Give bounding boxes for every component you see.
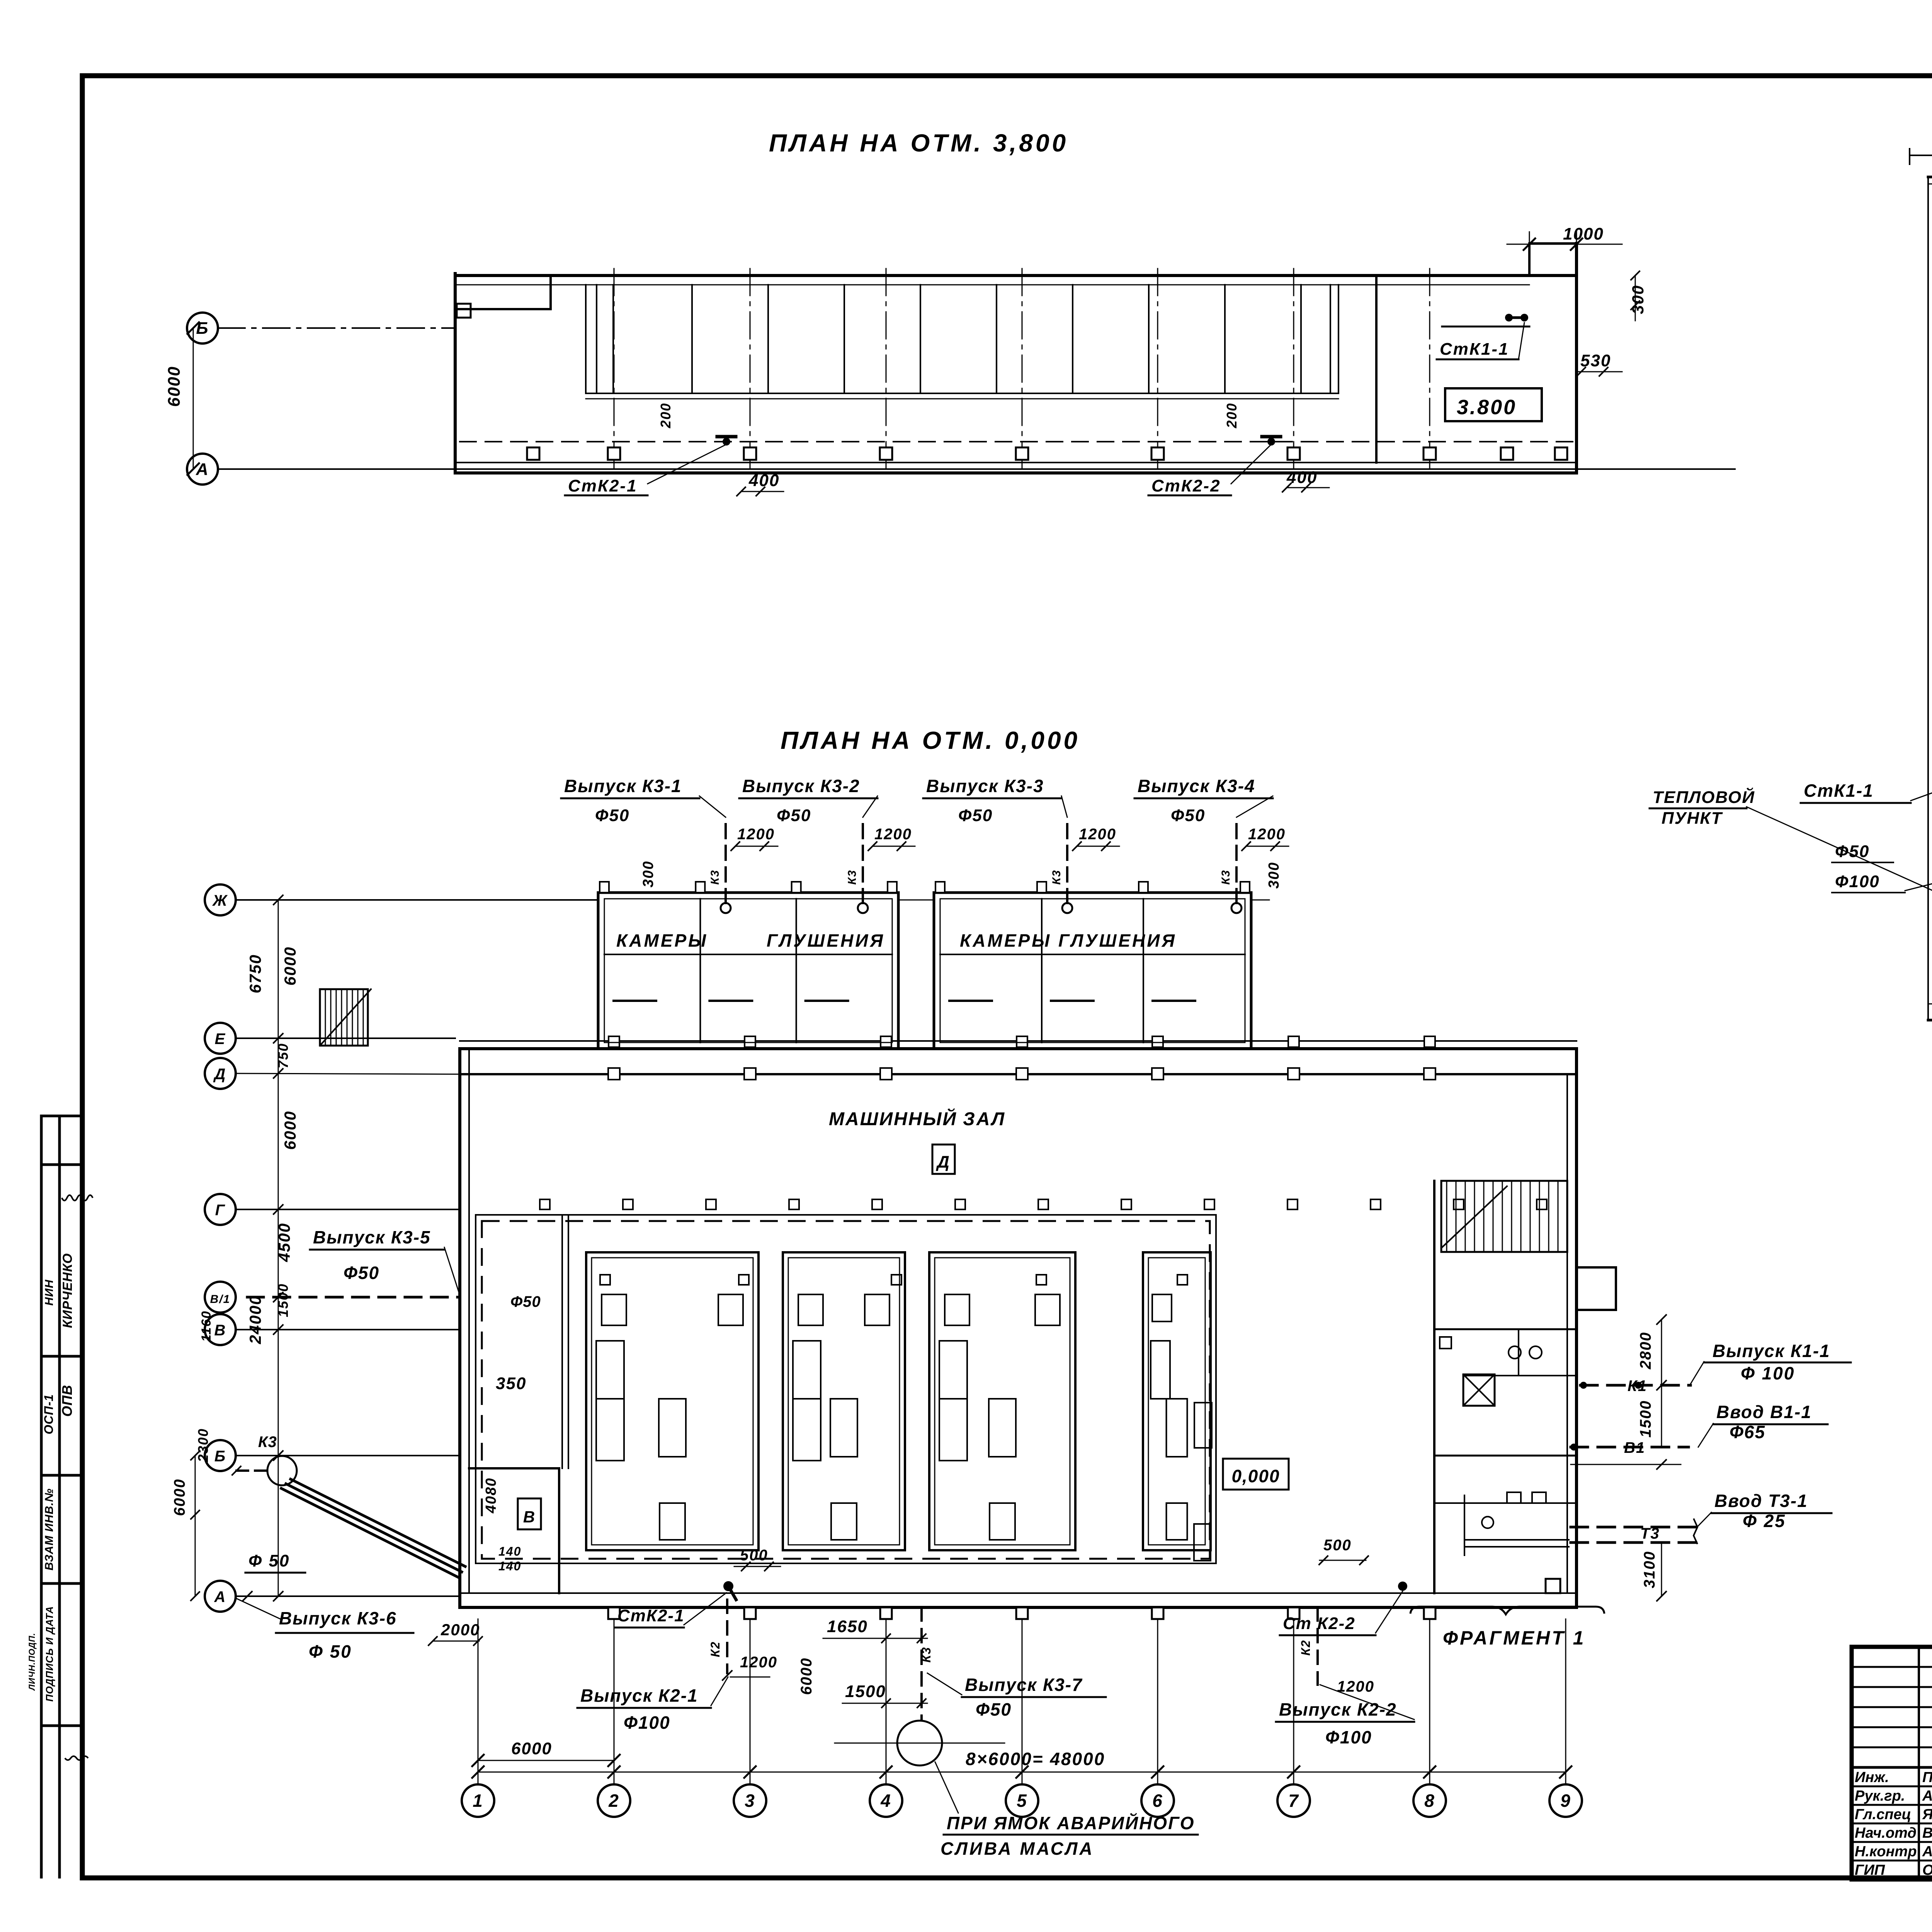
svg-text:6000: 6000 <box>165 366 184 407</box>
svg-text:К3: К3 <box>919 1646 933 1662</box>
svg-text:24000: 24000 <box>246 1295 264 1345</box>
svg-text:300: 300 <box>640 861 656 887</box>
svg-text:Ввод В1-1: Ввод В1-1 <box>1716 1402 1812 1422</box>
svg-text:ЛИЧН.ПОДП.: ЛИЧН.ПОДП. <box>27 1633 37 1691</box>
svg-text:ОСП-1: ОСП-1 <box>42 1394 56 1434</box>
svg-text:ОПВ: ОПВ <box>59 1385 75 1417</box>
svg-text:В: В <box>214 1322 226 1339</box>
svg-text:К3: К3 <box>709 869 721 884</box>
svg-text:Е: Е <box>215 1031 226 1048</box>
svg-text:АЛЕКСАНДРОВ: АЛЕКСАНДРОВ <box>1922 1844 1932 1860</box>
svg-text:Ф50: Ф50 <box>976 1699 1012 1719</box>
svg-text:К2: К2 <box>708 1641 722 1657</box>
svg-text:ГИП: ГИП <box>1855 1862 1885 1878</box>
svg-text:КИРЧЕНКО: КИРЧЕНКО <box>60 1253 75 1328</box>
svg-text:2300: 2300 <box>195 1428 211 1463</box>
svg-text:Ф 50: Ф 50 <box>248 1551 290 1570</box>
svg-text:СтК1-1: СтК1-1 <box>1440 340 1509 359</box>
svg-text:300: 300 <box>1629 285 1647 314</box>
svg-text:ФРАГМЕНТ 1: ФРАГМЕНТ 1 <box>1443 1627 1585 1649</box>
svg-text:Г: Г <box>215 1202 226 1219</box>
svg-text:Ф50: Ф50 <box>777 806 811 825</box>
svg-text:1200: 1200 <box>1248 826 1286 843</box>
svg-text:Ф50: Ф50 <box>344 1263 379 1283</box>
svg-text:200: 200 <box>658 403 673 429</box>
svg-text:Б: Б <box>214 1448 226 1465</box>
svg-text:Д: Д <box>935 1153 950 1172</box>
svg-text:1500: 1500 <box>1637 1400 1654 1438</box>
svg-text:К3: К3 <box>1050 869 1063 884</box>
svg-text:2: 2 <box>608 1791 619 1811</box>
svg-text:СтК1-1: СтК1-1 <box>1804 781 1874 801</box>
svg-text:КАМЕРЫ: КАМЕРЫ <box>616 930 708 951</box>
svg-text:В: В <box>523 1508 536 1526</box>
svg-text:350: 350 <box>496 1374 526 1393</box>
svg-text:ПЛАН НА ОТМ. 3,800: ПЛАН НА ОТМ. 3,800 <box>769 129 1068 157</box>
svg-text:Ф65: Ф65 <box>1730 1422 1765 1442</box>
svg-text:6: 6 <box>1152 1791 1163 1811</box>
svg-text:ОСТАШЕВСКИЙ: ОСТАШЕВСКИЙ <box>1922 1861 1932 1878</box>
svg-text:Выпуск К3-1: Выпуск К3-1 <box>564 776 682 796</box>
svg-text:СтК2-1: СтК2-1 <box>617 1606 685 1625</box>
svg-text:2000: 2000 <box>440 1621 480 1639</box>
svg-text:1000: 1000 <box>1563 224 1604 243</box>
svg-text:1200: 1200 <box>874 826 912 843</box>
svg-text:2800: 2800 <box>1637 1332 1654 1370</box>
svg-text:Ввод Т3-1: Ввод Т3-1 <box>1714 1491 1808 1511</box>
svg-text:750: 750 <box>275 1043 291 1068</box>
svg-text:4080: 4080 <box>483 1478 499 1514</box>
svg-text:К3: К3 <box>1219 869 1232 884</box>
svg-text:300: 300 <box>1266 862 1282 888</box>
svg-text:Ф50: Ф50 <box>1835 842 1869 861</box>
svg-text:Нач.отд: Нач.отд <box>1855 1825 1917 1841</box>
svg-text:АНИКИН: АНИКИН <box>1922 1788 1932 1804</box>
svg-text:К3: К3 <box>846 869 859 884</box>
svg-text:К3: К3 <box>258 1434 277 1451</box>
svg-text:ГЛУШЕНИЯ: ГЛУШЕНИЯ <box>767 930 885 951</box>
svg-text:Ф 25: Ф 25 <box>1743 1511 1786 1531</box>
svg-text:МАШИННЫЙ: МАШИННЫЙ <box>829 1108 957 1129</box>
svg-text:9: 9 <box>1560 1791 1571 1811</box>
svg-text:1500: 1500 <box>845 1682 886 1701</box>
svg-text:6000: 6000 <box>171 1479 188 1516</box>
svg-text:4500: 4500 <box>275 1223 293 1262</box>
svg-text:400: 400 <box>1286 468 1317 487</box>
svg-text:Выпуск К3-4: Выпуск К3-4 <box>1138 776 1255 796</box>
svg-text:Ф100: Ф100 <box>624 1713 670 1733</box>
svg-text:НИН: НИН <box>43 1279 56 1306</box>
svg-text:3.800: 3.800 <box>1457 396 1517 419</box>
svg-text:1200: 1200 <box>737 826 775 843</box>
svg-text:1160: 1160 <box>199 1310 214 1342</box>
svg-text:Ф100: Ф100 <box>1835 872 1880 891</box>
svg-text:Гл.спец: Гл.спец <box>1855 1806 1911 1823</box>
svg-text:500: 500 <box>740 1547 768 1564</box>
svg-text:8: 8 <box>1424 1791 1435 1811</box>
svg-text:Выпуск К3-5: Выпуск К3-5 <box>313 1227 431 1247</box>
svg-text:7: 7 <box>1288 1791 1299 1811</box>
svg-text:СтК2-1: СтК2-1 <box>568 476 638 495</box>
svg-text:6000: 6000 <box>281 946 299 985</box>
svg-text:Ф100: Ф100 <box>1325 1727 1372 1747</box>
svg-text:ВЕРЧЕНКО: ВЕРЧЕНКО <box>1922 1825 1932 1841</box>
svg-text:ТЕПЛОВОЙ: ТЕПЛОВОЙ <box>1653 787 1755 807</box>
svg-text:140: 140 <box>498 1559 521 1573</box>
svg-text:1500: 1500 <box>275 1283 291 1317</box>
svg-text:А: А <box>214 1588 226 1605</box>
svg-text:1650: 1650 <box>827 1617 868 1636</box>
svg-text:Выпуск К2-2: Выпуск К2-2 <box>1279 1699 1397 1719</box>
svg-text:Ф50: Ф50 <box>958 806 993 825</box>
svg-text:3100: 3100 <box>1641 1551 1658 1588</box>
svg-text:ПУНКТ: ПУНКТ <box>1662 809 1723 828</box>
svg-text:6000: 6000 <box>798 1658 815 1695</box>
svg-text:Ф 50: Ф 50 <box>309 1641 352 1662</box>
svg-text:Ф50: Ф50 <box>510 1293 541 1310</box>
svg-text:К1: К1 <box>1628 1378 1647 1395</box>
svg-text:Б: Б <box>196 319 209 338</box>
svg-text:ПРИ ЯМОК АВАРИЙНОГО: ПРИ ЯМОК АВАРИЙНОГО <box>947 1813 1195 1833</box>
svg-text:Н.контр: Н.контр <box>1855 1844 1917 1860</box>
svg-text:3: 3 <box>745 1791 755 1811</box>
svg-text:6000: 6000 <box>281 1111 299 1150</box>
svg-text:ВЗАМ ИНВ.№: ВЗАМ ИНВ.№ <box>43 1488 56 1571</box>
svg-text:Выпуск К3-7: Выпуск К3-7 <box>965 1675 1083 1695</box>
svg-text:Ф 100: Ф 100 <box>1741 1363 1795 1383</box>
svg-text:А: А <box>196 460 209 479</box>
svg-text:140: 140 <box>498 1544 521 1558</box>
svg-text:Инж.: Инж. <box>1855 1769 1889 1786</box>
svg-text:В1: В1 <box>1624 1439 1645 1456</box>
svg-text:1: 1 <box>473 1791 483 1811</box>
svg-text:ПОДПИСЬ И ДАТА: ПОДПИСЬ И ДАТА <box>44 1606 55 1702</box>
svg-text:ПЛАН НА ОТМ. 0,000: ПЛАН НА ОТМ. 0,000 <box>781 726 1080 754</box>
svg-text:8×6000= 48000: 8×6000= 48000 <box>966 1749 1105 1769</box>
svg-text:Д: Д <box>213 1066 226 1083</box>
svg-text:Выпуск К3-2: Выпуск К3-2 <box>742 776 860 796</box>
svg-text:6000: 6000 <box>511 1739 552 1758</box>
svg-text:В/1: В/1 <box>210 1293 231 1306</box>
svg-text:Выпуск К3-3: Выпуск К3-3 <box>926 776 1044 796</box>
svg-text:530: 530 <box>1580 351 1611 370</box>
svg-text:Ф50: Ф50 <box>1171 806 1205 825</box>
svg-text:Выпуск К1-1: Выпуск К1-1 <box>1713 1341 1830 1361</box>
svg-text:5: 5 <box>1017 1791 1027 1811</box>
svg-text:6750: 6750 <box>246 954 264 993</box>
svg-text:СтК2-2: СтК2-2 <box>1151 476 1221 495</box>
svg-text:0,000: 0,000 <box>1231 1466 1280 1486</box>
svg-text:1200: 1200 <box>740 1654 777 1671</box>
svg-text:400: 400 <box>748 471 779 490</box>
svg-text:Ж: Ж <box>212 892 228 909</box>
svg-text:500: 500 <box>1323 1537 1352 1554</box>
svg-text:Рук.гр.: Рук.гр. <box>1855 1788 1905 1804</box>
svg-text:ПУНДИКОВ: ПУНДИКОВ <box>1922 1769 1932 1786</box>
svg-text:Т3: Т3 <box>1640 1525 1660 1542</box>
svg-text:СЛИВА МАСЛА: СЛИВА МАСЛА <box>940 1838 1094 1859</box>
svg-text:Выпуск К2-1: Выпуск К2-1 <box>580 1685 698 1706</box>
svg-text:4: 4 <box>880 1791 891 1811</box>
svg-text:К2: К2 <box>1299 1639 1313 1655</box>
svg-text:КАМЕРЫ ГЛУШЕНИЯ: КАМЕРЫ ГЛУШЕНИЯ <box>960 930 1177 951</box>
svg-text:ЯСИНОВСКИЙ: ЯСИНОВСКИЙ <box>1922 1805 1932 1823</box>
svg-text:ЗАЛ: ЗАЛ <box>963 1109 1006 1129</box>
svg-text:Ст К2-2: Ст К2-2 <box>1283 1614 1355 1633</box>
svg-text:1200: 1200 <box>1079 826 1116 843</box>
svg-text:Ф50: Ф50 <box>595 806 629 825</box>
svg-text:200: 200 <box>1224 403 1240 429</box>
svg-text:Выпуск К3-6: Выпуск К3-6 <box>279 1608 397 1628</box>
